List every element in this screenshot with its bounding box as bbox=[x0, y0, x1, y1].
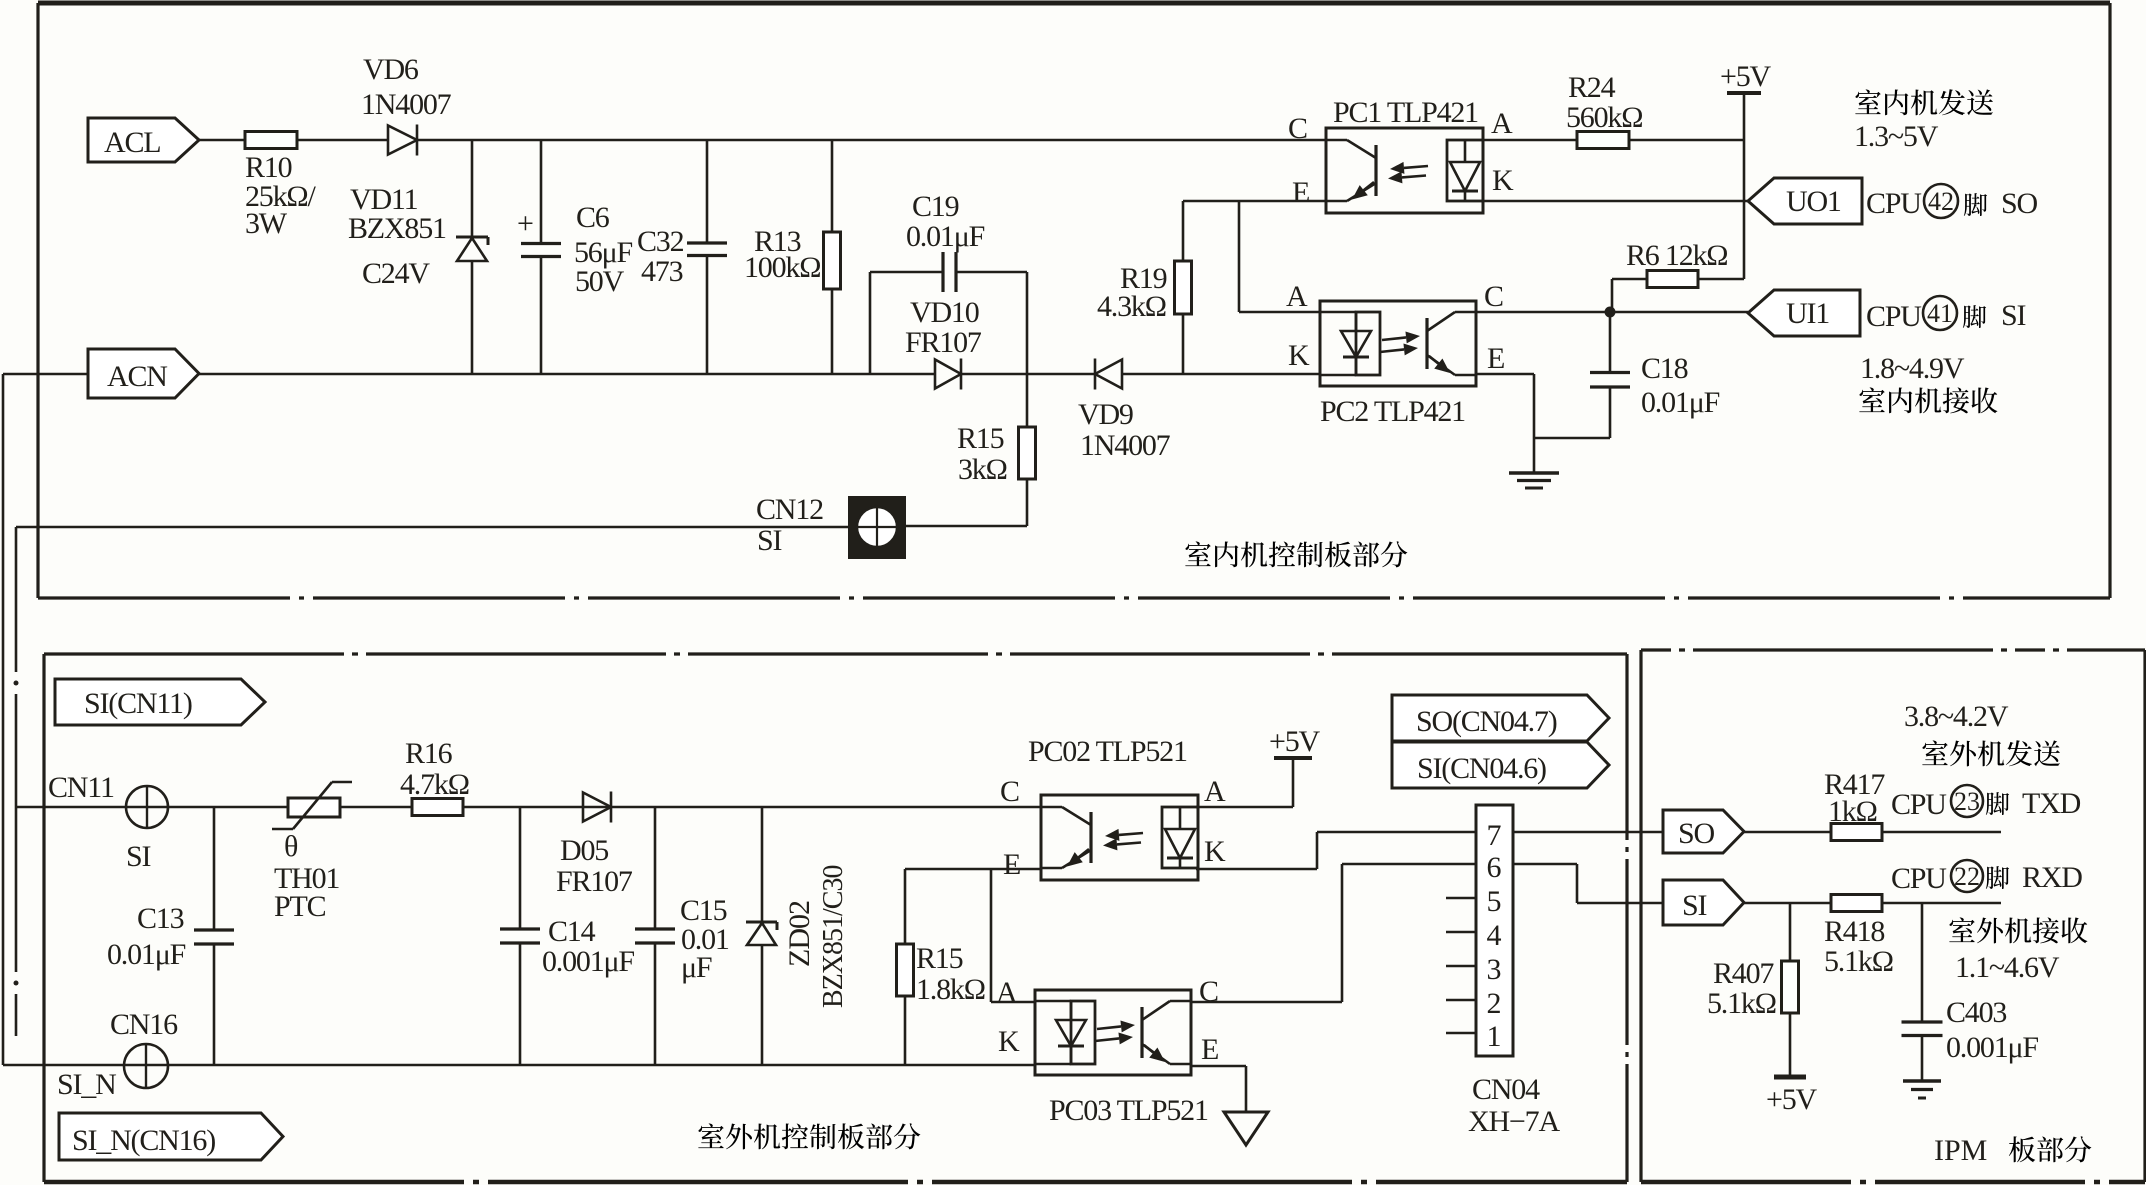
svg-text:CPU: CPU bbox=[1866, 300, 1922, 333]
svg-text:CN11: CN11 bbox=[48, 771, 114, 804]
svg-text:CN04: CN04 bbox=[1472, 1073, 1540, 1106]
svg-text:3.8~4.2V: 3.8~4.2V bbox=[1904, 700, 2009, 733]
svg-text:0.01μF: 0.01μF bbox=[906, 220, 985, 253]
svg-text:ACN: ACN bbox=[107, 360, 167, 393]
svg-text:1.8kΩ: 1.8kΩ bbox=[916, 973, 985, 1006]
svg-text:SI: SI bbox=[757, 524, 781, 557]
svg-text:5.1kΩ: 5.1kΩ bbox=[1707, 987, 1776, 1020]
svg-text:C13: C13 bbox=[137, 902, 184, 935]
svg-text:5.1kΩ: 5.1kΩ bbox=[1824, 945, 1893, 978]
svg-text:A: A bbox=[996, 976, 1018, 1009]
svg-text:0.01μF: 0.01μF bbox=[107, 938, 186, 971]
svg-text:PC02 TLP521: PC02 TLP521 bbox=[1028, 735, 1187, 768]
svg-text:SI: SI bbox=[2001, 299, 2025, 332]
svg-text:C: C bbox=[1000, 775, 1019, 808]
svg-text:μF: μF bbox=[681, 951, 712, 984]
svg-text:E: E bbox=[1292, 176, 1309, 209]
svg-text:ZD02: ZD02 bbox=[783, 901, 816, 967]
svg-text:R15: R15 bbox=[957, 422, 1004, 455]
svg-text:C6: C6 bbox=[576, 201, 610, 234]
svg-text:5: 5 bbox=[1487, 885, 1502, 918]
svg-text:CPU: CPU bbox=[1891, 862, 1947, 895]
svg-text:R24: R24 bbox=[1568, 71, 1616, 104]
svg-text:C19: C19 bbox=[912, 190, 959, 223]
svg-text:0.01μF: 0.01μF bbox=[1641, 386, 1720, 419]
svg-text:R418: R418 bbox=[1824, 915, 1884, 948]
svg-text:SI(CN04.6): SI(CN04.6) bbox=[1417, 752, 1546, 785]
svg-text:PC2 TLP421: PC2 TLP421 bbox=[1320, 395, 1465, 428]
svg-text:CN12: CN12 bbox=[756, 493, 823, 526]
svg-text:K: K bbox=[1288, 339, 1310, 372]
svg-text:FR107: FR107 bbox=[905, 326, 982, 359]
svg-text:BZX851/C30: BZX851/C30 bbox=[818, 866, 849, 1008]
svg-text:+5V: +5V bbox=[1720, 60, 1772, 93]
svg-text:SI: SI bbox=[126, 840, 150, 873]
svg-text:PC1 TLP421: PC1 TLP421 bbox=[1333, 96, 1478, 129]
svg-text:22: 22 bbox=[1954, 862, 1980, 891]
svg-text:VD9: VD9 bbox=[1078, 398, 1133, 431]
svg-text:0.001μF: 0.001μF bbox=[542, 945, 634, 978]
svg-text:UI1: UI1 bbox=[1786, 297, 1829, 330]
svg-text:θ: θ bbox=[284, 830, 298, 863]
svg-text:SI(CN11): SI(CN11) bbox=[84, 687, 192, 720]
svg-text:1.8~4.9V: 1.8~4.9V bbox=[1860, 352, 1965, 385]
svg-text:473: 473 bbox=[641, 255, 683, 288]
svg-text:PC03 TLP521: PC03 TLP521 bbox=[1049, 1094, 1208, 1127]
svg-text:3kΩ: 3kΩ bbox=[958, 453, 1007, 486]
svg-text:C: C bbox=[1288, 112, 1307, 145]
svg-text:E: E bbox=[1003, 848, 1020, 881]
svg-text:1.3~5V: 1.3~5V bbox=[1854, 120, 1939, 153]
svg-text:TXD: TXD bbox=[2022, 787, 2081, 820]
svg-text:42: 42 bbox=[1928, 187, 1954, 216]
svg-text:R15: R15 bbox=[916, 942, 963, 975]
svg-text:23: 23 bbox=[1954, 787, 1980, 816]
svg-text:+5V: +5V bbox=[1766, 1083, 1818, 1116]
svg-text:K: K bbox=[1492, 164, 1514, 197]
svg-text:6: 6 bbox=[1487, 851, 1502, 884]
svg-text:1N4007: 1N4007 bbox=[1080, 429, 1171, 462]
svg-text:R6 12kΩ: R6 12kΩ bbox=[1626, 239, 1727, 272]
svg-text:560kΩ: 560kΩ bbox=[1566, 101, 1642, 134]
svg-text:VD6: VD6 bbox=[363, 53, 419, 86]
svg-text:+: + bbox=[517, 207, 534, 240]
svg-text:A: A bbox=[1286, 280, 1308, 313]
svg-text:C32: C32 bbox=[637, 225, 684, 258]
svg-text:4.3kΩ: 4.3kΩ bbox=[1097, 290, 1166, 323]
svg-text:CPU: CPU bbox=[1866, 187, 1922, 220]
svg-text:7: 7 bbox=[1487, 819, 1502, 852]
svg-text:SO: SO bbox=[1678, 817, 1714, 850]
svg-text:C24V: C24V bbox=[362, 257, 430, 290]
svg-text:4.7kΩ: 4.7kΩ bbox=[400, 768, 469, 801]
svg-text:50V: 50V bbox=[575, 265, 625, 298]
svg-text:SI_N(CN16): SI_N(CN16) bbox=[72, 1124, 215, 1157]
svg-text:K: K bbox=[1204, 835, 1226, 868]
svg-text:RXD: RXD bbox=[2022, 861, 2082, 894]
svg-text:0.001μF: 0.001μF bbox=[1946, 1031, 2038, 1064]
svg-text:1N4007: 1N4007 bbox=[361, 88, 452, 121]
svg-text:K: K bbox=[998, 1025, 1020, 1058]
svg-text:1.1~4.6V: 1.1~4.6V bbox=[1955, 951, 2060, 984]
svg-text:FR107: FR107 bbox=[556, 865, 633, 898]
svg-text:PTC: PTC bbox=[274, 890, 326, 923]
svg-text:3: 3 bbox=[1487, 953, 1502, 986]
svg-text:C14: C14 bbox=[548, 915, 596, 948]
svg-text:3W: 3W bbox=[245, 207, 288, 240]
svg-text:VD10: VD10 bbox=[910, 296, 979, 329]
svg-text:XH−7A: XH−7A bbox=[1468, 1105, 1560, 1138]
svg-text:IPM: IPM bbox=[1934, 1134, 1987, 1167]
svg-text:C403: C403 bbox=[1946, 996, 2006, 1029]
svg-text:1: 1 bbox=[1487, 1020, 1502, 1053]
svg-text:SI: SI bbox=[1682, 889, 1706, 922]
svg-text:41: 41 bbox=[1927, 299, 1953, 328]
svg-text:+5V: +5V bbox=[1269, 725, 1321, 758]
svg-text:CN16: CN16 bbox=[110, 1008, 178, 1041]
svg-text:100kΩ: 100kΩ bbox=[744, 251, 820, 284]
svg-text:R407: R407 bbox=[1713, 957, 1774, 990]
svg-text:SI_N: SI_N bbox=[57, 1068, 116, 1101]
svg-text:BZX851: BZX851 bbox=[348, 212, 446, 245]
svg-text:E: E bbox=[1201, 1033, 1218, 1066]
svg-text:2: 2 bbox=[1487, 987, 1502, 1020]
svg-text:CPU: CPU bbox=[1891, 788, 1947, 821]
svg-text:A: A bbox=[1491, 107, 1513, 140]
svg-text:C18: C18 bbox=[1641, 352, 1688, 385]
svg-text:R16: R16 bbox=[405, 737, 453, 770]
svg-text:4: 4 bbox=[1487, 919, 1502, 952]
svg-text:UO1: UO1 bbox=[1786, 185, 1841, 218]
svg-text:ACL: ACL bbox=[104, 126, 160, 159]
svg-text:D05: D05 bbox=[560, 834, 608, 867]
svg-text:1kΩ: 1kΩ bbox=[1828, 795, 1877, 828]
svg-text:A: A bbox=[1204, 775, 1226, 808]
svg-text:SO: SO bbox=[2001, 187, 2037, 220]
svg-text:SO(CN04.7): SO(CN04.7) bbox=[1416, 705, 1557, 738]
svg-text:C: C bbox=[1484, 280, 1503, 313]
svg-text:E: E bbox=[1487, 342, 1504, 375]
